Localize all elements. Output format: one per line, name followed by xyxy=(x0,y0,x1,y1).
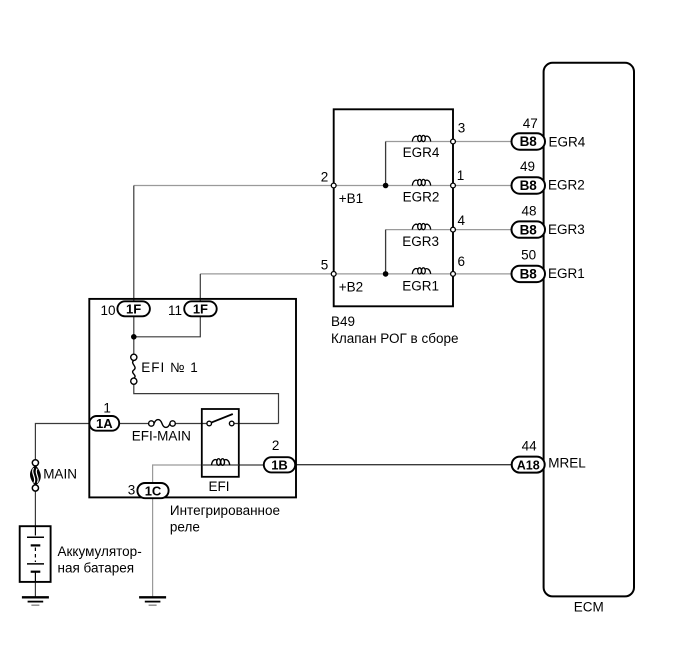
svg-text:1B: 1B xyxy=(271,458,288,473)
svg-text:EFI: EFI xyxy=(209,479,230,494)
fuse EFI No1 xyxy=(131,354,137,360)
B49 box xyxy=(334,109,453,306)
connector 1A xyxy=(89,416,119,431)
wire relay coil right to 1B xyxy=(239,464,265,466)
svg-text:EGR3: EGR3 xyxy=(402,234,439,249)
svg-text:1C: 1C xyxy=(145,483,162,498)
svg-text:EGR1: EGR1 xyxy=(548,266,585,281)
node terminal 6 xyxy=(451,272,456,277)
coil EGR3 xyxy=(412,224,430,230)
wire fuse EFI No1 to relay switch xyxy=(134,384,279,423)
svg-text:1F: 1F xyxy=(126,302,141,317)
connector B8 / EGR1 xyxy=(512,266,546,282)
junction node (1F tie) xyxy=(131,334,137,340)
node terminal 1 xyxy=(451,183,456,188)
svg-text:6: 6 xyxy=(458,254,466,269)
connector B8 / EGR3 xyxy=(512,221,546,237)
wire +B2 horizontal run to B8/EGR1 xyxy=(200,273,513,275)
connector A18 xyxy=(512,457,545,473)
wire switch row: 1A to EFI-MAIN to switch contacts xyxy=(119,423,149,425)
wire 1A out to battery drop xyxy=(35,424,90,460)
relay switch contacts xyxy=(207,421,212,426)
svg-text:EGR4: EGR4 xyxy=(403,145,440,160)
svg-text:44: 44 xyxy=(522,438,538,453)
svg-text:ECM: ECM xyxy=(574,600,604,615)
node terminal 4 xyxy=(451,227,456,232)
svg-text:49: 49 xyxy=(520,159,535,174)
svg-text:реле: реле xyxy=(170,520,200,535)
wire MAIN link to battery xyxy=(34,491,36,526)
svg-text:48: 48 xyxy=(521,204,536,219)
relay inner box xyxy=(202,409,239,477)
junction node (B2 branch) xyxy=(383,271,389,277)
svg-text:EGR2: EGR2 xyxy=(548,177,585,192)
svg-text:+B2: +B2 xyxy=(339,279,363,294)
connector B8 / EGR2 xyxy=(512,177,546,193)
svg-text:1F: 1F xyxy=(193,302,208,317)
svg-text:ная батарея: ная батарея xyxy=(58,561,135,576)
node terminal 2 (+B1) xyxy=(331,183,336,188)
connector B8 / EGR4 xyxy=(512,133,546,149)
wire EGR3 branch vertical xyxy=(385,230,387,274)
coil EGR1 xyxy=(412,268,430,274)
wire 1F pin10 down to junction xyxy=(133,316,135,337)
svg-text:MAIN: MAIN xyxy=(43,467,77,482)
svg-text:Интегрированное: Интегрированное xyxy=(170,503,280,518)
wire battery to ground xyxy=(34,582,36,597)
svg-text:+B1: +B1 xyxy=(339,191,363,206)
connector 1F pin10 xyxy=(117,301,149,316)
wire through relay coil xyxy=(202,464,239,466)
wire MREL 1B to A18 xyxy=(295,464,513,466)
wire EGR4 branch vertical xyxy=(385,142,387,186)
fusible link MAIN xyxy=(32,460,38,466)
svg-text:1: 1 xyxy=(457,168,465,183)
coil EGR2 xyxy=(412,179,430,185)
coil EGR4 xyxy=(412,135,430,141)
battery xyxy=(20,526,51,582)
relay box xyxy=(89,299,296,498)
svg-text:B49: B49 xyxy=(331,314,355,329)
svg-text:Аккумулятор-: Аккумулятор- xyxy=(58,544,142,559)
ground (battery) xyxy=(22,597,49,605)
wire 1F pin11 down and left to junction xyxy=(134,316,201,337)
svg-text:B8: B8 xyxy=(520,222,538,237)
relay coil EFI xyxy=(212,459,230,466)
ground (relay 1C) xyxy=(139,597,166,605)
svg-text:EGR2: EGR2 xyxy=(403,190,440,205)
wire EGR3 branch horizontal to B8 xyxy=(386,229,513,231)
ECM box xyxy=(544,63,634,597)
svg-text:4: 4 xyxy=(458,213,466,228)
svg-text:B8: B8 xyxy=(520,178,538,193)
node terminal 5 (+B2) xyxy=(331,272,336,277)
svg-text:MREL: MREL xyxy=(548,456,586,471)
junction node (B1 branch) xyxy=(383,183,389,189)
wire +B1 vertical drop to 1F pin10 xyxy=(133,186,135,303)
svg-text:Клапан РОГ в сборе: Клапан РОГ в сборе xyxy=(331,331,458,346)
svg-text:3: 3 xyxy=(458,120,466,135)
svg-text:B8: B8 xyxy=(520,267,538,282)
svg-text:B8: B8 xyxy=(520,134,538,149)
svg-text:EFI № 1: EFI № 1 xyxy=(141,360,199,375)
svg-text:1A: 1A xyxy=(96,416,113,431)
fuse EFI-MAIN xyxy=(149,421,154,426)
svg-text:EFI-MAIN: EFI-MAIN xyxy=(132,428,191,443)
svg-text:11: 11 xyxy=(168,303,182,318)
svg-text:47: 47 xyxy=(523,116,538,131)
svg-text:10: 10 xyxy=(101,303,116,318)
svg-text:2: 2 xyxy=(272,438,280,453)
relay switch arm xyxy=(211,414,233,423)
connector 1C xyxy=(137,483,168,498)
svg-text:EGR4: EGR4 xyxy=(549,134,586,149)
wire +B1 horizontal run from relay drop to B8/EGR2 xyxy=(134,185,513,187)
wire +B2 vertical drop to 1F pin11 xyxy=(199,274,201,302)
svg-text:50: 50 xyxy=(521,248,536,263)
wire junction to fuse EFI No1 xyxy=(133,337,135,355)
svg-text:5: 5 xyxy=(321,258,329,273)
wire relay coil to 1C and ground (gray) xyxy=(153,465,202,597)
svg-text:A18: A18 xyxy=(517,458,540,472)
svg-text:1: 1 xyxy=(103,401,111,416)
svg-text:2: 2 xyxy=(321,170,329,185)
svg-text:EGR1: EGR1 xyxy=(402,279,439,294)
svg-text:3: 3 xyxy=(128,482,136,497)
svg-text:EGR3: EGR3 xyxy=(548,222,585,237)
connector 1F pin11 xyxy=(184,301,217,316)
wire EGR4 branch horizontal to B8 xyxy=(386,141,513,143)
connector 1B xyxy=(264,457,295,472)
node terminal 3 xyxy=(451,139,456,144)
